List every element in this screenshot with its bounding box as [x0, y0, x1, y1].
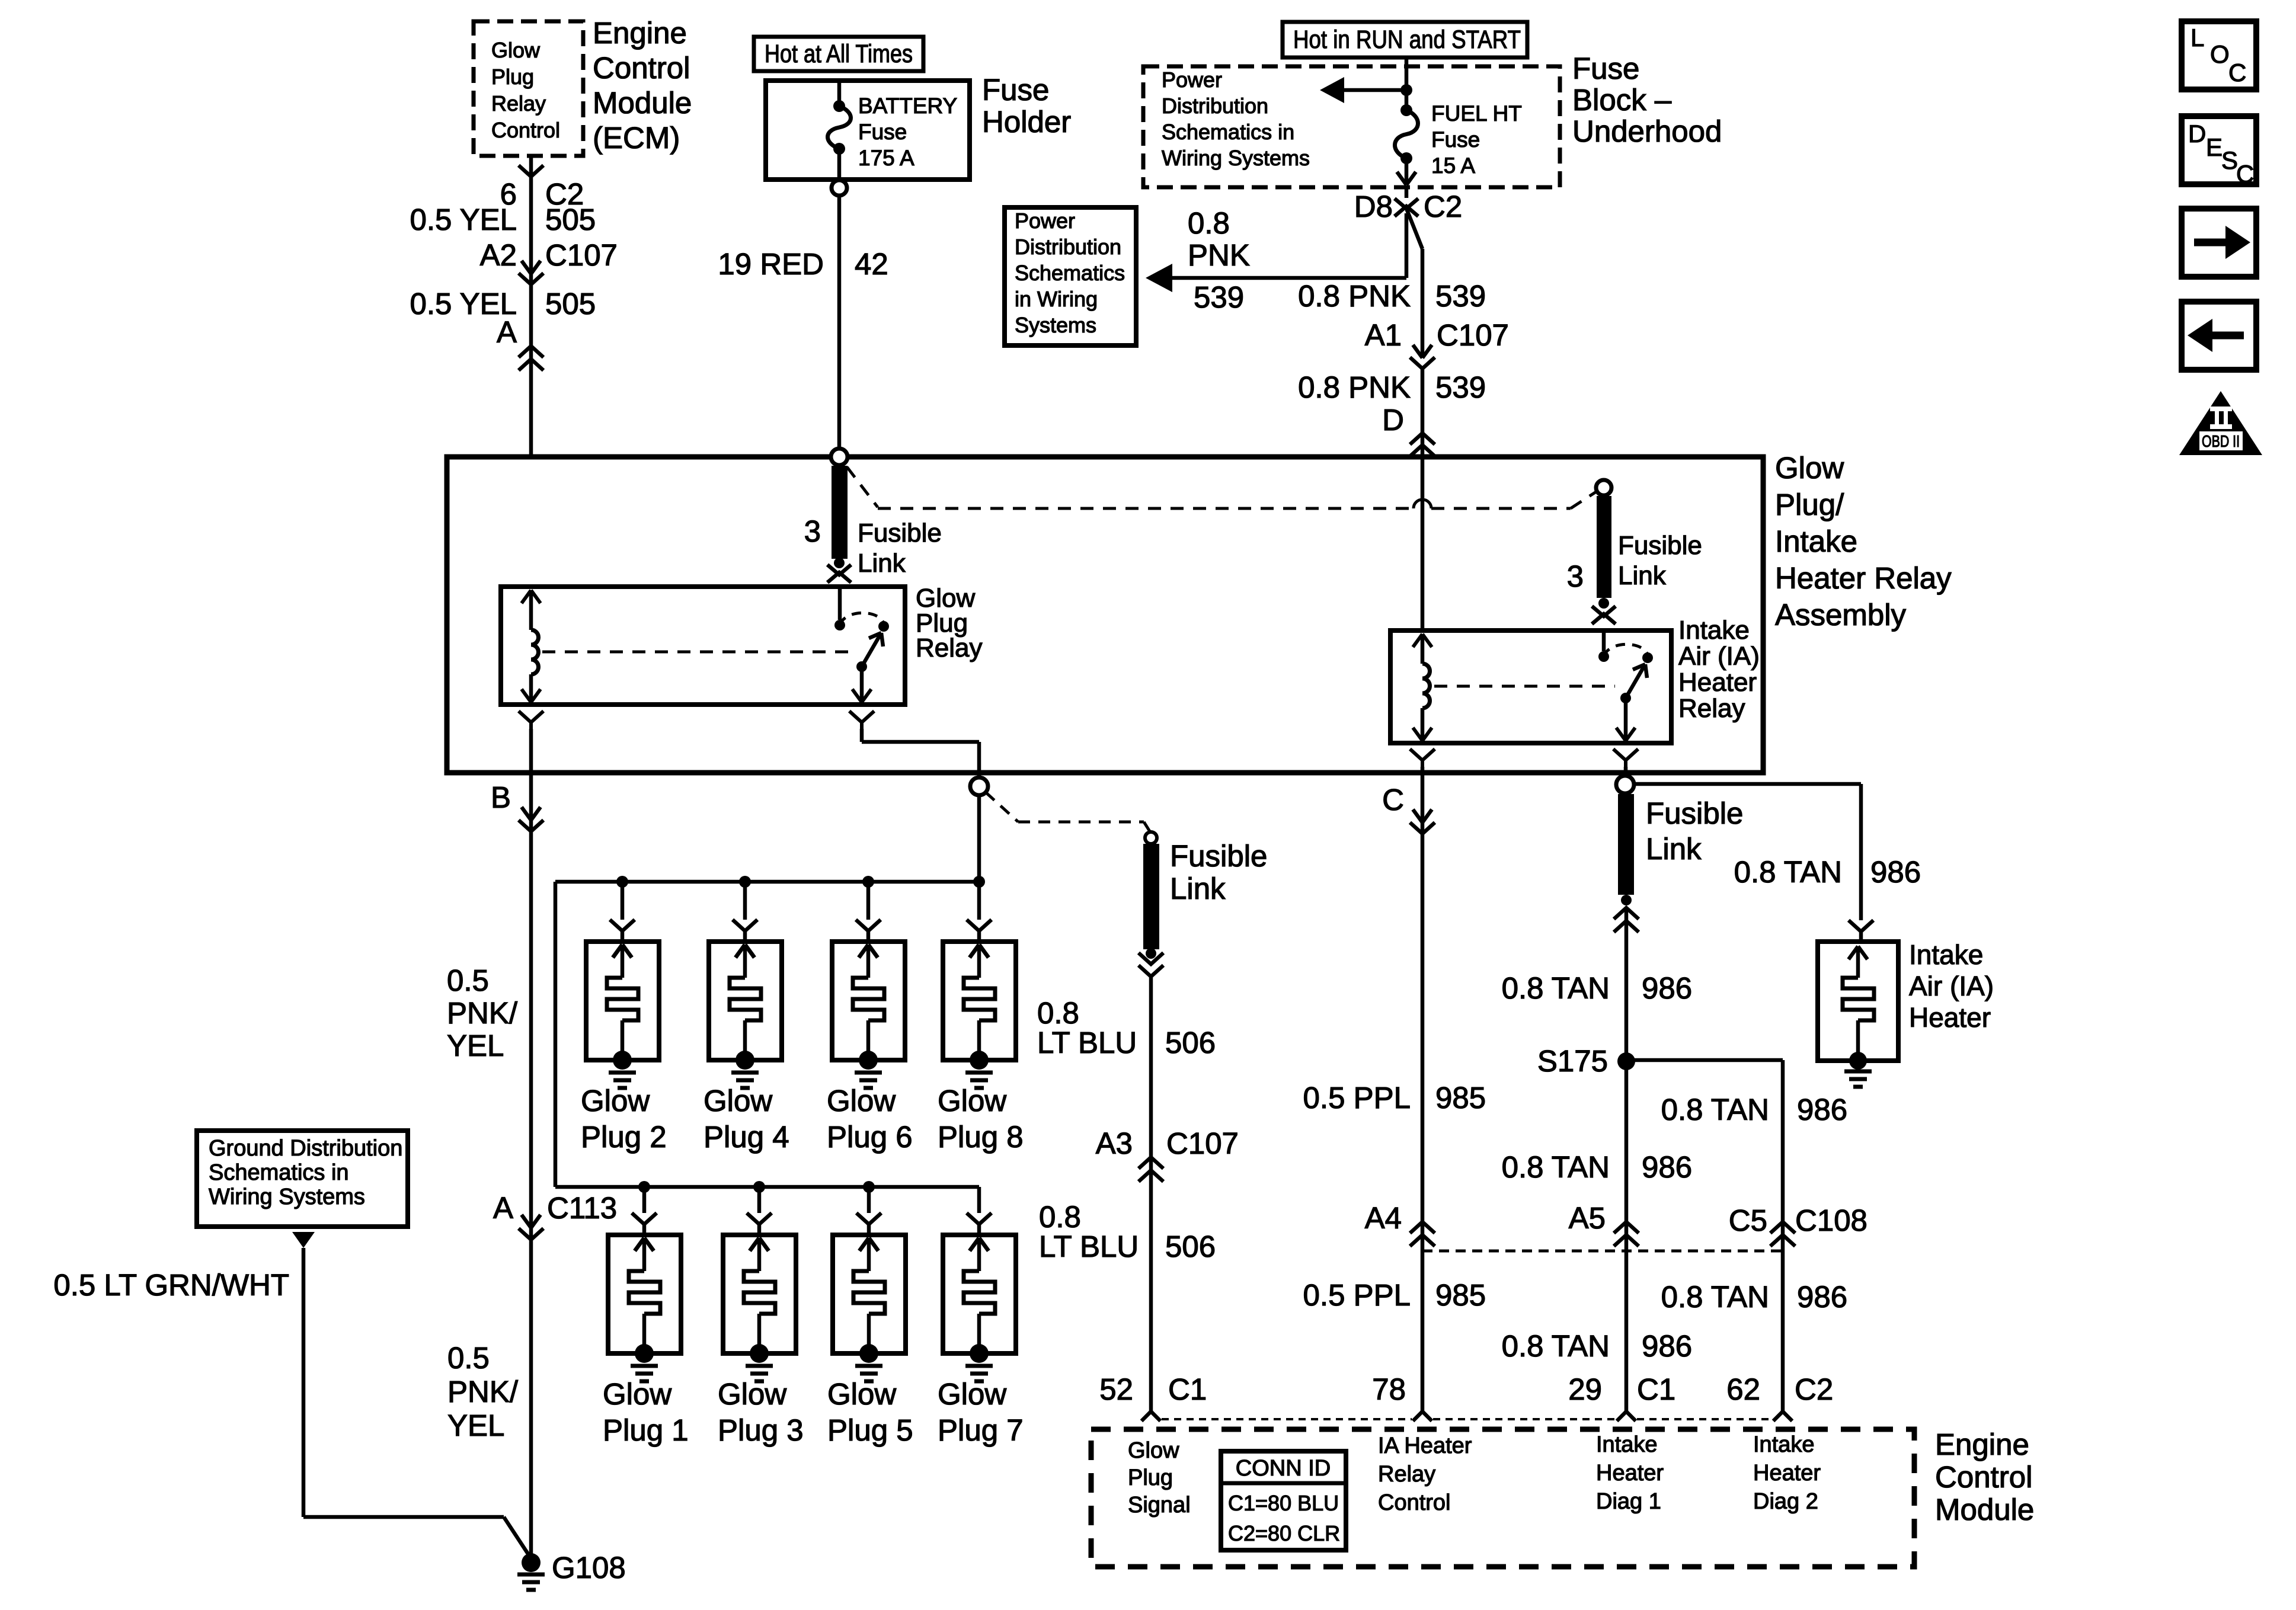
svg-text:506: 506 — [1165, 1026, 1216, 1060]
svg-text:C108: C108 — [1795, 1204, 1868, 1237]
svg-text:Control: Control — [1378, 1490, 1451, 1515]
svg-text:Wiring Systems: Wiring Systems — [209, 1185, 365, 1209]
svg-text:Engine: Engine — [1935, 1427, 2029, 1461]
svg-text:42: 42 — [855, 247, 888, 281]
svg-text:Link: Link — [1646, 832, 1702, 866]
svg-text:Relay: Relay — [1378, 1462, 1435, 1487]
svg-text:Diag 2: Diag 2 — [1753, 1489, 1818, 1514]
svg-text:Glow: Glow — [603, 1377, 671, 1411]
svg-text:B: B — [491, 780, 511, 814]
svg-text:Heater: Heater — [1678, 668, 1757, 697]
svg-text:Schematics in: Schematics in — [1162, 120, 1294, 144]
svg-text:Glow: Glow — [1775, 451, 1844, 485]
svg-text:Glow: Glow — [581, 1084, 650, 1118]
svg-text:S175: S175 — [1537, 1044, 1608, 1078]
svg-text:Engine: Engine — [593, 16, 687, 50]
svg-text:Glow: Glow — [827, 1377, 896, 1411]
svg-text:LT BLU: LT BLU — [1037, 1026, 1137, 1060]
svg-text:0.8: 0.8 — [1037, 996, 1079, 1030]
svg-text:Heater: Heater — [1596, 1461, 1664, 1486]
svg-text:A5: A5 — [1569, 1201, 1606, 1235]
svg-text:Plug: Plug — [1128, 1465, 1173, 1490]
svg-text:Module: Module — [1935, 1493, 2034, 1526]
svg-text:0.8 TAN: 0.8 TAN — [1502, 971, 1610, 1005]
svg-text:FUEL HT: FUEL HT — [1431, 101, 1522, 126]
svg-text:506: 506 — [1165, 1230, 1216, 1263]
svg-text:C113: C113 — [547, 1191, 617, 1225]
svg-text:A: A — [493, 1191, 513, 1225]
svg-text:Signal: Signal — [1128, 1493, 1191, 1518]
svg-text:Glow: Glow — [491, 38, 541, 62]
svg-text:986: 986 — [1797, 1280, 1847, 1314]
svg-text:Glow: Glow — [718, 1377, 786, 1411]
svg-text:Fusible: Fusible — [1170, 839, 1267, 873]
svg-text:78: 78 — [1372, 1372, 1406, 1406]
svg-text:Control: Control — [1935, 1460, 2032, 1494]
svg-text:986: 986 — [1870, 855, 1921, 889]
svg-text:A2: A2 — [480, 238, 517, 272]
svg-text:52: 52 — [1099, 1372, 1133, 1406]
svg-text:Plug 7: Plug 7 — [938, 1413, 1024, 1447]
svg-text:C1=80 BLU: C1=80 BLU — [1228, 1491, 1339, 1515]
svg-text:986: 986 — [1797, 1093, 1847, 1126]
svg-text:Fuse: Fuse — [982, 73, 1049, 107]
svg-text:A3: A3 — [1096, 1126, 1133, 1160]
svg-text:Diag 1: Diag 1 — [1596, 1489, 1661, 1514]
svg-text:BATTERY: BATTERY — [858, 94, 957, 118]
svg-text:Glow: Glow — [1128, 1438, 1179, 1463]
svg-text:Block –: Block – — [1572, 83, 1672, 117]
svg-text:Glow: Glow — [827, 1084, 896, 1118]
svg-text:S: S — [2221, 146, 2238, 174]
svg-text:Schematics: Schematics — [1015, 261, 1125, 285]
svg-text:15 A: 15 A — [1431, 153, 1475, 178]
svg-text:Relay: Relay — [916, 633, 983, 662]
svg-text:C5: C5 — [1729, 1204, 1767, 1237]
svg-text:C107: C107 — [1437, 318, 1509, 352]
svg-text:Hot at All Times: Hot at All Times — [765, 40, 913, 68]
svg-text:PNK/: PNK/ — [447, 996, 518, 1030]
svg-text:G108: G108 — [552, 1551, 626, 1585]
svg-text:Intake: Intake — [1678, 616, 1750, 645]
svg-text:Power: Power — [1015, 209, 1075, 233]
svg-text:Link: Link — [1170, 872, 1226, 905]
svg-text:0.8: 0.8 — [1039, 1200, 1081, 1234]
svg-text:539: 539 — [1435, 279, 1486, 313]
svg-text:Plug 5: Plug 5 — [827, 1413, 913, 1447]
svg-text:Distribution: Distribution — [1162, 94, 1268, 118]
svg-text:CONN ID: CONN ID — [1236, 1456, 1331, 1481]
svg-text:Plug 3: Plug 3 — [718, 1413, 804, 1447]
svg-text:D8: D8 — [1354, 190, 1393, 223]
svg-text:505: 505 — [545, 287, 596, 321]
svg-text:29: 29 — [1568, 1372, 1602, 1406]
svg-text:C: C — [1382, 783, 1404, 817]
svg-text:Intake: Intake — [1753, 1432, 1815, 1457]
svg-text:OBD II: OBD II — [2202, 432, 2240, 450]
svg-text:Glow: Glow — [703, 1084, 772, 1118]
svg-text:in Wiring: in Wiring — [1015, 287, 1098, 311]
svg-text:985: 985 — [1435, 1278, 1486, 1312]
svg-text:C2: C2 — [1424, 190, 1462, 223]
svg-text:C2: C2 — [1795, 1372, 1833, 1406]
svg-text:Relay: Relay — [491, 91, 546, 116]
svg-text:C: C — [2228, 59, 2246, 87]
svg-text:A: A — [497, 315, 517, 349]
svg-text:Plug 4: Plug 4 — [703, 1120, 789, 1154]
svg-text:0.8: 0.8 — [1188, 206, 1230, 240]
svg-text:Intake: Intake — [1909, 939, 1983, 970]
svg-text:Fusible: Fusible — [858, 518, 942, 548]
svg-text:0.5: 0.5 — [447, 964, 489, 997]
svg-text:Distribution: Distribution — [1015, 235, 1121, 259]
svg-text:Link: Link — [1618, 561, 1667, 590]
svg-text:Module: Module — [593, 86, 692, 120]
svg-text:Heater Relay: Heater Relay — [1775, 561, 1952, 595]
svg-text:0.5 PPL: 0.5 PPL — [1303, 1278, 1411, 1312]
svg-text:C2=80 CLR: C2=80 CLR — [1228, 1521, 1340, 1545]
svg-text:PNK/: PNK/ — [447, 1375, 519, 1409]
svg-text:0.8 PNK: 0.8 PNK — [1298, 279, 1411, 313]
svg-text:Plug 6: Plug 6 — [827, 1120, 913, 1154]
svg-text:Glow: Glow — [938, 1084, 1006, 1118]
svg-text:Hot in RUN and START: Hot in RUN and START — [1293, 25, 1521, 54]
svg-text:Heater: Heater — [1909, 1002, 1991, 1033]
svg-text:PNK: PNK — [1188, 238, 1250, 272]
svg-text:Fuse: Fuse — [1431, 127, 1480, 152]
svg-text:Heater: Heater — [1753, 1461, 1821, 1486]
svg-text:C: C — [2236, 160, 2254, 188]
svg-text:0.5 LT GRN/WHT: 0.5 LT GRN/WHT — [53, 1268, 289, 1302]
svg-text:0.8 TAN: 0.8 TAN — [1661, 1280, 1769, 1314]
svg-text:YEL: YEL — [447, 1029, 504, 1062]
svg-text:0.5 YEL: 0.5 YEL — [410, 203, 517, 236]
svg-text:985: 985 — [1435, 1081, 1486, 1115]
svg-text:986: 986 — [1642, 971, 1692, 1005]
svg-text:Control: Control — [491, 118, 560, 142]
svg-text:Wiring Systems: Wiring Systems — [1162, 146, 1310, 170]
svg-text:C107: C107 — [1166, 1126, 1239, 1160]
svg-text:Power: Power — [1162, 68, 1222, 92]
svg-text:Glow: Glow — [938, 1377, 1006, 1411]
svg-text:C1: C1 — [1168, 1372, 1207, 1406]
svg-text:A1: A1 — [1365, 318, 1402, 352]
svg-text:(ECM): (ECM) — [593, 121, 680, 155]
svg-text:0.8 PNK: 0.8 PNK — [1298, 370, 1411, 404]
svg-text:505: 505 — [545, 203, 596, 236]
svg-text:0.5 PPL: 0.5 PPL — [1303, 1081, 1411, 1115]
svg-text:Relay: Relay — [1678, 694, 1745, 723]
svg-text:0.8 TAN: 0.8 TAN — [1502, 1150, 1610, 1184]
svg-text:175 A: 175 A — [858, 146, 914, 170]
svg-text:Plug 2: Plug 2 — [581, 1120, 667, 1154]
svg-text:Schematics in: Schematics in — [209, 1160, 349, 1185]
svg-text:Systems: Systems — [1015, 313, 1096, 337]
svg-text:Underhood: Underhood — [1572, 114, 1722, 148]
svg-text:E: E — [2206, 133, 2223, 161]
svg-text:Fusible: Fusible — [1618, 531, 1702, 560]
svg-text:L: L — [2191, 24, 2204, 52]
svg-text:Plug: Plug — [491, 65, 534, 89]
svg-text:0.8 TAN: 0.8 TAN — [1734, 855, 1842, 889]
svg-text:D: D — [2188, 120, 2206, 148]
svg-text:Intake: Intake — [1596, 1432, 1658, 1457]
svg-text:Control: Control — [593, 51, 690, 85]
svg-text:19 RED: 19 RED — [718, 247, 824, 281]
svg-text:539: 539 — [1435, 370, 1486, 404]
svg-text:O: O — [2210, 40, 2230, 68]
svg-text:C107: C107 — [545, 238, 618, 272]
svg-text:YEL: YEL — [447, 1409, 504, 1442]
svg-text:Holder: Holder — [982, 105, 1071, 139]
svg-text:0.8 TAN: 0.8 TAN — [1502, 1329, 1610, 1363]
svg-text:Plug 1: Plug 1 — [603, 1413, 689, 1447]
svg-text:Assembly: Assembly — [1775, 598, 1907, 632]
svg-text:Air (IA): Air (IA) — [1909, 971, 1994, 1001]
svg-text:IA Heater: IA Heater — [1378, 1433, 1472, 1458]
svg-text:Link: Link — [858, 549, 906, 578]
svg-text:Air (IA): Air (IA) — [1678, 642, 1760, 671]
svg-text:Fuse: Fuse — [1572, 52, 1639, 85]
svg-text:Plug 8: Plug 8 — [938, 1120, 1024, 1154]
svg-text:Fuse: Fuse — [858, 120, 907, 144]
svg-text:A4: A4 — [1365, 1201, 1402, 1235]
svg-text:Intake: Intake — [1775, 524, 1857, 558]
svg-text:3: 3 — [804, 514, 821, 548]
svg-text:D: D — [1382, 403, 1404, 437]
svg-text:986: 986 — [1642, 1329, 1692, 1363]
svg-text:Fusible: Fusible — [1646, 796, 1743, 830]
svg-text:C1: C1 — [1637, 1372, 1675, 1406]
svg-text:0.8 TAN: 0.8 TAN — [1661, 1093, 1769, 1126]
svg-text:Plug/: Plug/ — [1775, 488, 1844, 521]
svg-text:3: 3 — [1567, 559, 1584, 593]
svg-text:62: 62 — [1726, 1372, 1760, 1406]
svg-text:986: 986 — [1642, 1150, 1692, 1184]
svg-text:Ground Distribution: Ground Distribution — [209, 1136, 402, 1161]
svg-text:0.5: 0.5 — [447, 1341, 490, 1375]
svg-text:LT BLU: LT BLU — [1039, 1230, 1139, 1263]
svg-text:539: 539 — [1194, 280, 1244, 314]
